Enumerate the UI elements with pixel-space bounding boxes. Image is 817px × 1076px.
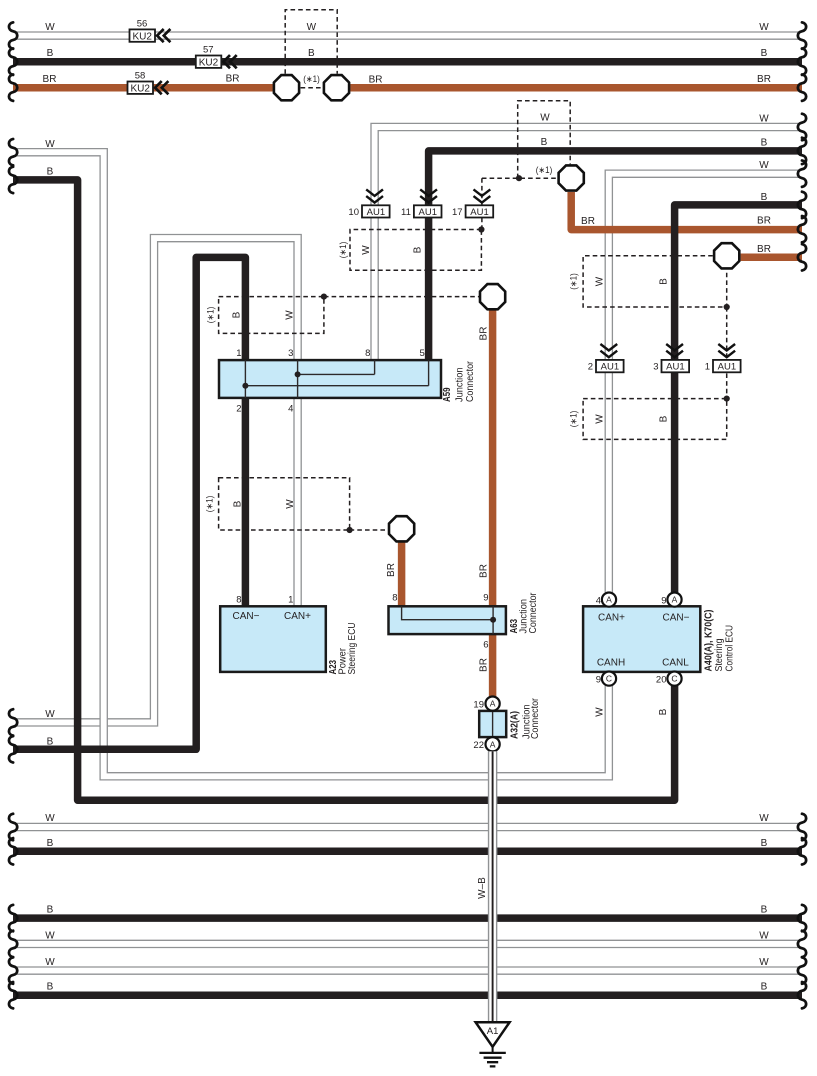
- svg-text:(∗1): (∗1): [206, 307, 216, 324]
- svg-text:B: B: [47, 48, 54, 59]
- shield dashed link between octagons: [301, 87, 323, 89]
- svg-text:B: B: [761, 838, 768, 849]
- connector AU1 pin 1: [705, 344, 741, 373]
- svg-text:AU1: AU1: [367, 207, 385, 218]
- svg-text:W: W: [595, 276, 606, 286]
- svg-text:A1: A1: [487, 1026, 499, 1037]
- svg-text:CAN+: CAN+: [284, 611, 311, 622]
- svg-text:W: W: [307, 22, 317, 33]
- svg-text:Control ECU: Control ECU: [725, 625, 736, 672]
- svg-text:9: 9: [596, 674, 601, 685]
- svg-text:W: W: [759, 114, 769, 125]
- svg-text:A40(A), K70(C): A40(A), K70(C): [704, 610, 715, 672]
- connector AU1 pin 11: [401, 189, 441, 217]
- svg-text:BR: BR: [478, 564, 489, 578]
- connector AU1 pin 2: [588, 344, 624, 373]
- svg-text:A: A: [606, 595, 612, 605]
- svg-text:W: W: [759, 160, 769, 171]
- svg-text:W: W: [45, 813, 55, 824]
- svg-text:BR: BR: [386, 563, 397, 577]
- shield dashed horizontal to octagon: [482, 177, 558, 179]
- octagon shield upper right: [559, 165, 584, 190]
- ECU A40 K70 Steering Control: [583, 606, 700, 672]
- svg-text:B: B: [761, 192, 768, 203]
- A59 name label: [442, 360, 476, 402]
- wire B CANL main loop: [13, 180, 675, 800]
- svg-text:W: W: [285, 310, 296, 320]
- shield dashed vertical octagon to AU1-1: [726, 307, 728, 399]
- junction connector A32(A): [479, 704, 506, 745]
- ECU pin circle C9: [596, 672, 616, 686]
- svg-text:22: 22: [473, 740, 484, 751]
- shield dashed link boxL1 to octagon: [324, 296, 480, 298]
- connector KU2 56: [130, 19, 171, 43]
- svg-text:W: W: [361, 245, 372, 255]
- svg-text:AU1: AU1: [718, 362, 736, 373]
- svg-text:BR: BR: [226, 74, 240, 85]
- svg-text:58: 58: [135, 71, 146, 82]
- connector KU2 57: [196, 45, 237, 69]
- svg-text:AU1: AU1: [419, 207, 437, 218]
- svg-text:Connector: Connector: [530, 697, 541, 739]
- svg-text:B: B: [47, 167, 54, 178]
- ECU A23 Power Steering: [220, 606, 326, 672]
- svg-text:W: W: [540, 113, 550, 124]
- svg-text:B: B: [761, 48, 768, 59]
- svg-text:W: W: [595, 414, 606, 424]
- wire B bus group4 upper: [13, 914, 802, 922]
- svg-text:AU1: AU1: [601, 362, 619, 373]
- A63 name label: [509, 592, 539, 634]
- svg-text:11: 11: [401, 207, 411, 218]
- svg-text:BR: BR: [581, 216, 595, 227]
- svg-text:B: B: [659, 278, 670, 285]
- svg-text:W: W: [759, 813, 769, 824]
- svg-text:5: 5: [420, 348, 425, 359]
- wire B bus group3: [13, 848, 802, 856]
- svg-text:C: C: [606, 674, 612, 684]
- svg-text:BR: BR: [757, 216, 771, 227]
- wire break left group1: [9, 22, 17, 101]
- wire W A59 pin 4 to A23 pin 1: [293, 398, 302, 607]
- wire B A59 pin 2 to A23 pin 8: [242, 398, 250, 607]
- ECU pin circle A4: [596, 593, 616, 607]
- junction connector A59: [219, 360, 441, 398]
- shield dashed box right lower: [583, 399, 727, 440]
- shield dashed vertical AU1-17: [481, 178, 483, 229]
- shield dashed box left lower: [219, 478, 350, 530]
- svg-text:BR: BR: [369, 75, 383, 86]
- svg-text:AU1: AU1: [470, 207, 488, 218]
- svg-text:(∗1): (∗1): [303, 74, 320, 84]
- svg-text:CAN−: CAN−: [233, 611, 260, 622]
- wire W CANH main loop: [13, 152, 609, 776]
- svg-text:19: 19: [473, 699, 484, 710]
- svg-text:1: 1: [236, 348, 241, 359]
- svg-text:W: W: [45, 22, 55, 33]
- connector AU1 pin 10: [348, 189, 389, 217]
- shield dashed box mid top: [350, 230, 481, 271]
- svg-text:(∗1): (∗1): [536, 165, 553, 175]
- wire break left group2a: [9, 139, 17, 193]
- wire break right mid rows: [798, 114, 806, 271]
- wire BR octagon down then right to edge: [571, 192, 802, 230]
- wire B left loop to A59 pin 1: [13, 257, 245, 749]
- svg-text:A59: A59: [442, 387, 453, 402]
- svg-text:W: W: [45, 709, 55, 720]
- svg-text:3: 3: [653, 362, 658, 373]
- octagon shield mid: [480, 284, 505, 309]
- wire BR right edge to octagon: [741, 254, 802, 262]
- ECU pin circle C20: [656, 672, 682, 686]
- svg-text:B: B: [761, 137, 768, 148]
- octagon shield top right twin: [324, 75, 349, 100]
- svg-text:9: 9: [661, 595, 666, 606]
- svg-text:B: B: [413, 246, 424, 253]
- shield dashed box top: [285, 10, 337, 74]
- svg-text:W–B: W–B: [477, 877, 488, 899]
- svg-text:(∗1): (∗1): [569, 411, 579, 428]
- ECU pin circle A9: [661, 593, 681, 607]
- svg-text:C: C: [671, 674, 677, 684]
- wire break left group3: [9, 814, 17, 865]
- svg-text:8: 8: [365, 348, 370, 359]
- svg-text:10: 10: [348, 207, 359, 218]
- wire W-B A32 pin 22 to ground: [488, 751, 498, 1022]
- svg-text:4: 4: [288, 404, 293, 415]
- svg-text:A: A: [672, 595, 678, 605]
- A32 pin circle 19: [473, 697, 499, 711]
- wire B bus group4 lower: [13, 991, 802, 999]
- svg-text:W: W: [45, 139, 55, 150]
- wire W bus group4 upper: [13, 940, 802, 949]
- junction dot boxL2 corner: [347, 527, 353, 533]
- wire W bus group4 lower: [13, 966, 802, 975]
- ground A1: [476, 1022, 510, 1066]
- wire W from right edge via AU1-10 to A59 pin 8: [375, 127, 802, 361]
- svg-text:B: B: [658, 708, 669, 715]
- junction dot boxL1 corner: [321, 294, 327, 300]
- wire BR octagon to A63 pin 9: [489, 300, 497, 607]
- shield dashed box left upper: [219, 297, 324, 334]
- octagon shield top left: [274, 75, 299, 100]
- svg-text:A32(A): A32(A): [510, 711, 521, 739]
- wire W right edge to ECU pin A4: [609, 174, 802, 593]
- svg-text:B: B: [308, 48, 315, 59]
- wire break right group1: [798, 22, 806, 101]
- svg-text:BR: BR: [757, 244, 771, 255]
- svg-text:BR: BR: [757, 74, 771, 85]
- junction dot dashed left: [516, 175, 522, 181]
- svg-text:8: 8: [236, 595, 241, 606]
- svg-text:B: B: [233, 500, 244, 507]
- A59 pin labels: [236, 348, 425, 414]
- svg-text:2: 2: [236, 404, 241, 415]
- wire B right edge via AU1-11 to A59 pin 5: [429, 151, 802, 361]
- svg-text:AU1: AU1: [666, 362, 684, 373]
- svg-text:B: B: [761, 982, 768, 993]
- svg-text:20: 20: [656, 674, 667, 685]
- svg-text:B: B: [47, 905, 54, 916]
- wire break right group3: [798, 814, 806, 865]
- svg-text:B: B: [232, 311, 243, 318]
- svg-text:56: 56: [137, 19, 148, 30]
- svg-text:Steering ECU: Steering ECU: [347, 623, 358, 675]
- svg-text:B: B: [541, 137, 548, 148]
- svg-text:Junction: Junction: [455, 368, 466, 403]
- svg-text:W: W: [759, 930, 769, 941]
- svg-text:B: B: [659, 415, 670, 422]
- A63 pin labels: [392, 593, 488, 651]
- svg-text:W: W: [45, 957, 55, 968]
- wire BR bus top right segment: [350, 84, 802, 92]
- wire W left loop to A59 pin 3: [13, 238, 298, 722]
- svg-text:(∗1): (∗1): [205, 496, 215, 513]
- svg-text:W: W: [285, 499, 296, 509]
- svg-text:57: 57: [203, 45, 214, 56]
- wire BR bus top left segment: [13, 84, 273, 92]
- svg-text:8: 8: [392, 593, 397, 604]
- junction dot boxR2 corner: [724, 396, 730, 402]
- svg-text:A: A: [490, 739, 496, 749]
- shield dashed box top right: [518, 101, 571, 178]
- svg-text:9: 9: [483, 593, 488, 604]
- svg-text:6: 6: [483, 640, 488, 651]
- svg-text:(∗1): (∗1): [338, 242, 348, 259]
- svg-text:1: 1: [288, 595, 293, 606]
- svg-text:3: 3: [288, 348, 293, 359]
- svg-text:B: B: [47, 838, 54, 849]
- octagon shield lower: [389, 516, 414, 541]
- wire break right group4: [798, 905, 806, 1009]
- octagon shield far right: [714, 243, 739, 268]
- wire break left group4: [9, 905, 17, 1009]
- svg-text:W: W: [759, 22, 769, 33]
- svg-text:BR: BR: [478, 327, 489, 341]
- shield dashed link boxL2 to octagon: [350, 529, 390, 531]
- svg-text:W: W: [595, 707, 606, 717]
- svg-text:CAN+: CAN+: [598, 613, 625, 624]
- svg-text:CANH: CANH: [597, 658, 625, 669]
- A23 name label: [328, 623, 358, 675]
- wire W bus group3: [13, 823, 802, 832]
- wire B bus top: [13, 58, 802, 66]
- svg-text:B: B: [47, 982, 54, 993]
- svg-text:17: 17: [452, 207, 463, 218]
- svg-text:Steering: Steering: [714, 639, 725, 672]
- svg-text:KU2: KU2: [132, 32, 152, 43]
- svg-text:1: 1: [705, 362, 710, 373]
- A32 pin circle 22: [473, 737, 499, 751]
- svg-text:KU2: KU2: [130, 84, 150, 95]
- junction dot boxR1 corner: [724, 304, 730, 310]
- svg-text:B: B: [761, 905, 768, 916]
- svg-text:Connector: Connector: [528, 592, 539, 634]
- svg-text:Connector: Connector: [465, 360, 476, 402]
- shield dashed box right upper: [583, 256, 727, 307]
- svg-text:CAN−: CAN−: [663, 613, 690, 624]
- svg-text:B: B: [47, 737, 54, 748]
- svg-text:2: 2: [588, 362, 593, 373]
- junction dot below AU1-17: [478, 226, 484, 232]
- svg-text:BR: BR: [478, 658, 489, 672]
- svg-text:KU2: KU2: [199, 58, 219, 69]
- wire BR octagon to A63 pin 8: [398, 532, 406, 607]
- svg-text:BR: BR: [43, 74, 57, 85]
- connector KU2 58: [128, 71, 169, 95]
- wire BR A63 pin 6 to A32 pin 19: [489, 634, 497, 697]
- A23 pin labels: [236, 595, 293, 606]
- A32 name label: [510, 697, 542, 739]
- svg-text:(∗1): (∗1): [569, 273, 579, 290]
- wire break left group2b: [9, 709, 17, 762]
- wire B right edge to ECU pin A9: [675, 205, 802, 593]
- svg-text:W: W: [759, 957, 769, 968]
- svg-text:4: 4: [596, 595, 601, 606]
- svg-text:CANL: CANL: [662, 658, 689, 669]
- svg-text:W: W: [45, 930, 55, 941]
- svg-text:A: A: [490, 699, 496, 709]
- connector AU1 pin 17: [452, 189, 493, 217]
- wire W bus top: [13, 31, 802, 40]
- connector AU1 pin 3: [653, 344, 689, 373]
- ECU name label: [704, 610, 736, 672]
- junction connector A63: [389, 606, 506, 634]
